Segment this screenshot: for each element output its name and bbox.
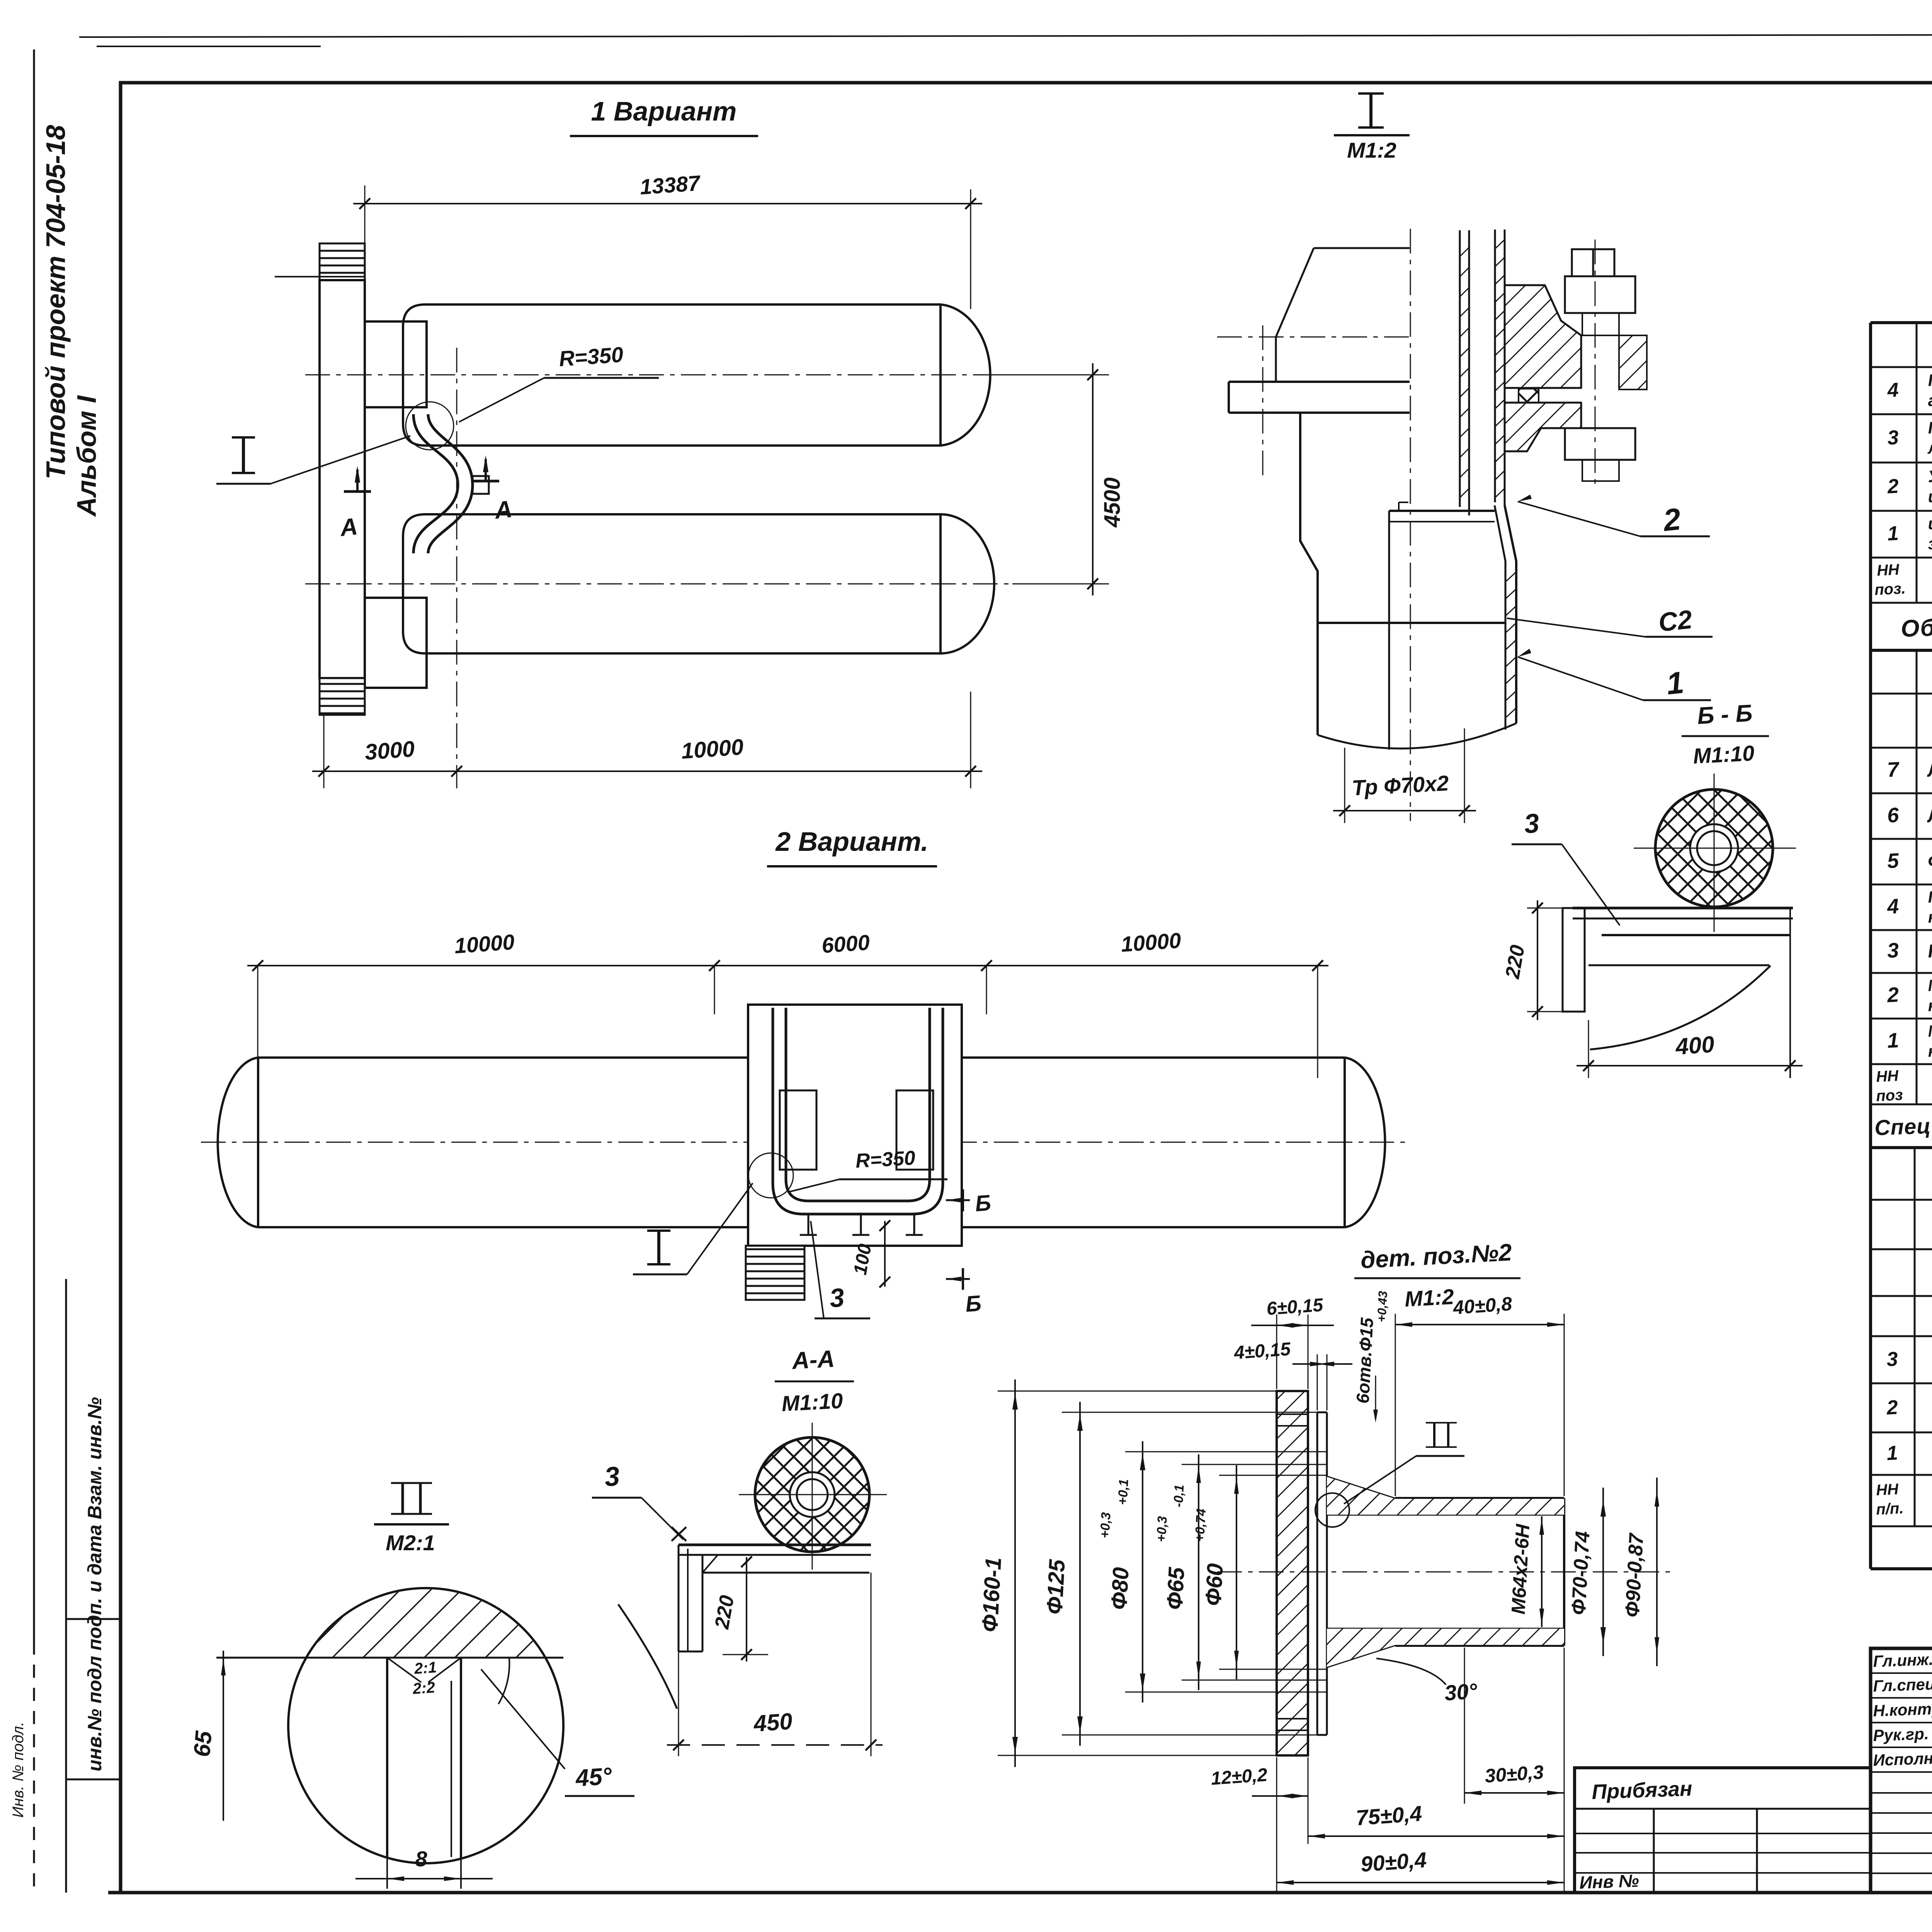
svg-text:10000: 10000 (454, 930, 515, 958)
svg-text:Ф80: Ф80 (1106, 1566, 1134, 1610)
pipe flange pair at S middle (473, 476, 489, 494)
slot chamfer funnel (387, 1658, 421, 1682)
svg-text:3: 3 (1523, 808, 1541, 839)
svg-text:3: 3 (1887, 426, 1899, 449)
U pipe outer (773, 1008, 943, 1214)
flange plate hatched (1277, 1391, 1308, 1755)
svg-text:4±0,15: 4±0,15 (1233, 1339, 1292, 1363)
right edge extension (1789, 908, 1791, 1078)
central support box (748, 1005, 962, 1246)
svg-text:10000: 10000 (1120, 928, 1182, 957)
tank 2 end cap (940, 514, 994, 653)
svg-text:1: 1 (1665, 665, 1685, 701)
sheet top rule (79, 34, 1932, 37)
dim 220 (A-A) (746, 1557, 747, 1662)
insulated pipe section circle (A-A) (755, 1437, 869, 1552)
plate bolt holes (1277, 1413, 1308, 1415)
svg-text:+0,74: +0,74 (1192, 1508, 1209, 1542)
callout I label (242, 437, 245, 473)
svg-text:А: А (493, 496, 514, 524)
tank long body (258, 1058, 1345, 1227)
svg-text:Ф60: Ф60 (1201, 1563, 1228, 1606)
svg-text:2: 2 (1886, 475, 1899, 498)
dim 400 (1588, 1020, 1589, 1078)
dim F80 (1125, 1451, 1327, 1452)
dim 40+-0.8 (1395, 1314, 1396, 1496)
pipe hangers (808, 1214, 810, 1235)
svg-text:М1:10: М1:10 (781, 1388, 844, 1416)
svg-text:А: А (338, 513, 359, 542)
dim 75+-0.4 (1564, 1648, 1565, 1893)
slot walls (386, 1658, 388, 1858)
svg-text:поз: поз (1876, 1086, 1903, 1105)
pipe bottom break line (1318, 723, 1516, 748)
svg-text:инв.№ подл подп. и дата: инв.№ подл подп. и дата Взам. инв.№ (84, 1397, 105, 1772)
svg-text:30°: 30° (1444, 1679, 1478, 1705)
svg-text:6000: 6000 (821, 930, 871, 958)
svg-text:75±0,4: 75±0,4 (1355, 1801, 1423, 1830)
svg-text:4500: 4500 (1100, 477, 1125, 527)
callout 2 (1518, 495, 1532, 502)
bed curve (1588, 964, 1769, 966)
stairs block (746, 1246, 804, 1300)
svg-text:Инв. № подл.: Инв. № подл. (10, 1722, 27, 1818)
svg-text:1: 1 (1887, 522, 1899, 545)
svg-text:3: 3 (1886, 1348, 1898, 1371)
svg-text:3: 3 (828, 1283, 845, 1313)
svg-text:+0,3: +0,3 (1097, 1512, 1113, 1539)
svg-text:Н.контр: Н.контр (1873, 1699, 1932, 1720)
dims 10000 6000 10000 (247, 965, 1328, 966)
svg-text:2:2: 2:2 (412, 1679, 436, 1697)
dim 4+-0.15 (1317, 1354, 1318, 1410)
upper pipe wall hatching (1495, 240, 1505, 249)
svg-text:Инв №: Инв № (1579, 1871, 1639, 1893)
section mark A right (472, 480, 499, 483)
detail circle I on U pipe (748, 1153, 793, 1198)
svg-text:Гл.спец: Гл.спец (1873, 1675, 1932, 1695)
dim F90-0.87 (1656, 1478, 1658, 1666)
svg-text:Гл.инж.пр: Гл.инж.пр (1873, 1650, 1932, 1670)
svg-text:6±0,15: 6±0,15 (1266, 1295, 1324, 1319)
svg-text:90±0,4: 90±0,4 (1360, 1847, 1427, 1876)
svg-text:2 Вариант.: 2 Вариант. (775, 827, 928, 857)
callout 1 (1518, 649, 1531, 657)
svg-text:3000: 3000 (364, 736, 415, 765)
svg-text:450: 450 (752, 1708, 793, 1737)
svg-text:R=350: R=350 (558, 342, 624, 371)
svg-text:С2: С2 (1657, 605, 1694, 638)
circle centerlines (A-A) (812, 1423, 813, 1570)
section mark A left (344, 490, 371, 493)
table: work volume (top) (1871, 321, 1932, 324)
svg-text:НН: НН (1876, 1067, 1899, 1085)
lower pipe left wall (1300, 413, 1318, 735)
table: materials list (explication) (1871, 1147, 1932, 1149)
bore lines (1327, 1514, 1564, 1516)
svg-text:10000: 10000 (680, 735, 744, 764)
svg-text:2: 2 (1886, 1396, 1898, 1419)
detail circle II (1315, 1493, 1349, 1527)
svg-text:8: 8 (415, 1847, 427, 1871)
dim 6+-0.15 (1276, 1315, 1277, 1389)
dim 450 (678, 1651, 679, 1756)
svg-text:Ф65: Ф65 (1162, 1566, 1189, 1611)
svg-text:40±0,8: 40±0,8 (1452, 1293, 1513, 1319)
svg-text:2:1: 2:1 (413, 1659, 437, 1677)
tank 1 end cap (940, 304, 990, 446)
dim M64x2-6H (1541, 1516, 1543, 1627)
section I centerline (1410, 229, 1411, 821)
svg-text:1: 1 (1886, 1029, 1899, 1052)
table: materials spec (1871, 650, 1932, 651)
svg-text:Б - Б: Б - Б (1697, 700, 1753, 729)
dim 30+-0.3 (1464, 1648, 1465, 1804)
stub wall hatching upper (1327, 1477, 1564, 1515)
chord line (216, 1657, 563, 1659)
upper pipe walls (1459, 230, 1461, 507)
U pipe inner (786, 1008, 930, 1201)
svg-text:+0,1: +0,1 (1115, 1479, 1131, 1505)
svg-text:1 Вариант: 1 Вариант (591, 96, 737, 126)
detail circle I on S-pipe (406, 402, 454, 450)
support step lower (365, 598, 427, 688)
dim F60 (1219, 1475, 1327, 1476)
svg-text:А-А: А-А (791, 1345, 835, 1374)
svg-text:3: 3 (603, 1461, 621, 1492)
inner tube top edge (1389, 510, 1495, 512)
weld seam line (1318, 622, 1505, 624)
svg-text:поз.: поз. (1874, 580, 1906, 599)
dim 3000 and 10000 bottom (323, 716, 325, 788)
support step upper (365, 321, 427, 407)
svg-text:Ф90-0,87: Ф90-0,87 (1621, 1532, 1648, 1618)
dim F125 (1062, 1412, 1317, 1413)
section mark B upper (962, 1189, 964, 1211)
tank shell plate (1229, 381, 1410, 383)
dim 4500 right (993, 374, 1109, 376)
svg-text:Ф70-0,74: Ф70-0,74 (1567, 1531, 1594, 1616)
support pad right (896, 1090, 933, 1170)
svg-text:13387: 13387 (639, 170, 702, 199)
svg-text:6: 6 (1886, 803, 1900, 827)
gasket (1519, 389, 1539, 403)
svg-text:2: 2 (1886, 983, 1899, 1007)
svg-text:Альбом I: Альбом I (71, 395, 102, 517)
tank centerline (201, 1142, 1406, 1143)
vertical centerline of junction (456, 348, 457, 777)
svg-text:Б: Б (964, 1291, 982, 1317)
detail II circle (288, 1588, 563, 1863)
svg-text:65: 65 (189, 1729, 217, 1758)
svg-text:1: 1 (1886, 1442, 1898, 1464)
threaded stub outline (1395, 1497, 1564, 1499)
tank 2 body (403, 514, 940, 653)
dim 13387 (353, 203, 982, 204)
svg-text:Рук.гр.: Рук.гр. (1873, 1725, 1929, 1745)
dim 90+-0.4 (1277, 1882, 1564, 1883)
svg-text:п/п.: п/п. (1876, 1500, 1904, 1518)
dim 12+-0.2 (1276, 1757, 1277, 1893)
label 45 deg (481, 1669, 565, 1769)
flange lip ring (1316, 1412, 1318, 1735)
svg-text:12±0,2: 12±0,2 (1210, 1765, 1268, 1789)
callout II (1433, 1423, 1435, 1447)
title block outline (1871, 1648, 1932, 1893)
title II (401, 1483, 404, 1514)
lower pipe right wall hatched pair (1495, 505, 1505, 730)
inner tube left wall (1388, 511, 1390, 750)
support left rib (1563, 908, 1585, 1012)
weld mark (A-A) (672, 1527, 686, 1541)
dim 100 (884, 1221, 886, 1287)
svg-text:Типовой проект 704-05-18: Типовой проект 704-05-18 (41, 125, 71, 479)
neck cone lower (1327, 1645, 1395, 1667)
support wall hatched block top (320, 243, 365, 280)
svg-text:М1:2: М1:2 (1404, 1284, 1455, 1311)
svg-text:М2:1: М2:1 (386, 1531, 435, 1555)
dim F70-0.74 (1602, 1488, 1604, 1656)
bolt centerline (1595, 240, 1596, 488)
svg-text:4: 4 (1886, 895, 1899, 918)
sheet outer left rule (33, 49, 35, 1641)
tank right end cap (1344, 1058, 1346, 1227)
svg-text:4: 4 (1886, 379, 1899, 401)
tank 1 body (403, 304, 940, 446)
svg-text:Ф160-1: Ф160-1 (977, 1557, 1006, 1633)
svg-text:30±0,3: 30±0,3 (1484, 1761, 1544, 1787)
insulated pipe section circle (1655, 789, 1773, 907)
svg-text:5: 5 (1886, 849, 1900, 873)
dim F160-1 (998, 1391, 1277, 1392)
svg-text:400: 400 (1674, 1031, 1715, 1060)
circle centerlines (1714, 774, 1715, 932)
svg-text:45°: 45° (574, 1763, 613, 1792)
svg-text:М1:2: М1:2 (1347, 138, 1396, 162)
svg-text:Б: Б (974, 1190, 992, 1216)
neck cone upper (1327, 1477, 1395, 1499)
tank 2 centerline (305, 583, 1041, 585)
bolt assembly (1572, 249, 1593, 276)
tank left end cap (257, 1058, 259, 1227)
bolt hatched plate right (1619, 335, 1647, 389)
tank 1 centerline (305, 374, 1041, 376)
part centerline (1217, 1571, 1673, 1573)
tank dome outline (1314, 247, 1410, 249)
svg-text:R=350: R=350 (855, 1147, 916, 1172)
support pad left (780, 1090, 816, 1170)
svg-text:Ф125: Ф125 (1042, 1559, 1070, 1615)
left margin column (65, 1279, 67, 1893)
svg-text:+0,3: +0,3 (1154, 1516, 1170, 1543)
svg-text:Тр Ф70х2: Тр Ф70х2 (1351, 771, 1449, 800)
section mark B lower (962, 1268, 964, 1290)
dim 220 (B-B) (1527, 908, 1563, 909)
attachment table Прибязан (1575, 1768, 1871, 1893)
flange upper hatched (1505, 285, 1581, 388)
svg-text:М1:10: М1:10 (1692, 741, 1755, 768)
svg-text:НН: НН (1876, 561, 1900, 579)
title block signature rows (1871, 1672, 1932, 1674)
flange lower hatched (1505, 403, 1581, 451)
svg-text:НН: НН (1876, 1481, 1899, 1499)
stub wall hatching lower (1327, 1629, 1564, 1667)
svg-text:+0,43: +0,43 (1374, 1291, 1390, 1323)
tank shell edge (A-A) (618, 1604, 677, 1709)
callout I (variant 2) (657, 1231, 660, 1264)
left flange (A-A) (678, 1545, 680, 1651)
support plate side view (1573, 907, 1793, 910)
support wall (320, 280, 365, 678)
dim 8 (386, 1858, 388, 1889)
callout C2 (1507, 618, 1645, 637)
svg-text:Прибязан: Прибязан (1591, 1777, 1692, 1804)
support plate (A-A) (679, 1544, 871, 1546)
support wall hatched block bottom (320, 678, 365, 715)
svg-text:Исполн.: Исполн. (1873, 1749, 1932, 1769)
svg-text:-0,1: -0,1 (1171, 1484, 1187, 1508)
section I title (1369, 94, 1372, 128)
dim 65 (223, 1651, 224, 1821)
dim F65 (1182, 1464, 1327, 1465)
S-shaped pipe between tanks (413, 414, 458, 553)
svg-text:3: 3 (1886, 939, 1899, 962)
